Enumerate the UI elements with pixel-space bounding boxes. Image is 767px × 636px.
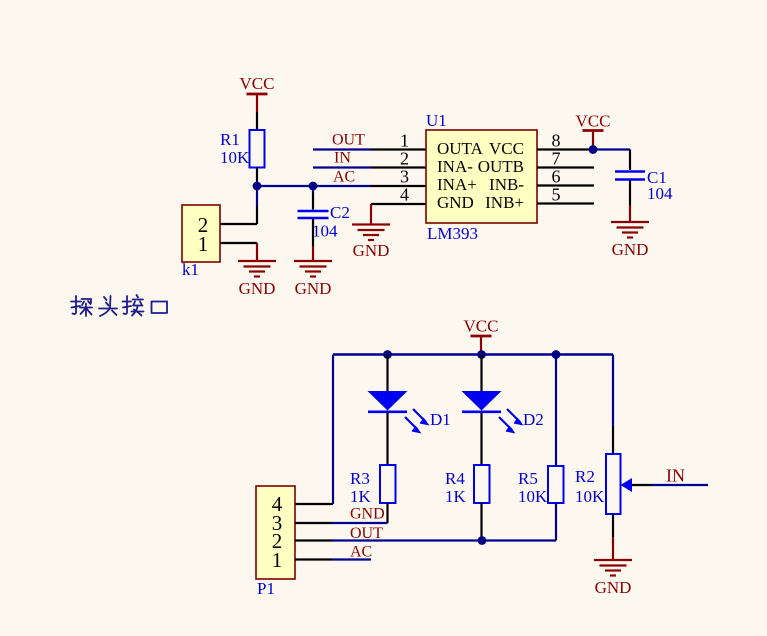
svg-text:OUT: OUT bbox=[332, 132, 365, 149]
svg-text:k1: k1 bbox=[182, 260, 199, 279]
svg-text:4: 4 bbox=[400, 185, 409, 205]
wire U1 pin7 stub bbox=[537, 166, 594, 168]
svg-text:R1: R1 bbox=[220, 130, 240, 149]
wire U1 pin5 stub bbox=[537, 202, 594, 204]
wire U1 pin4 stub bbox=[371, 203, 426, 205]
svg-text:GND: GND bbox=[350, 506, 385, 523]
svg-text:AC: AC bbox=[350, 544, 372, 561]
svg-text:10K: 10K bbox=[518, 487, 548, 506]
node junction D1/rail bbox=[383, 350, 392, 359]
wire P1 pin1 (AC stub) bbox=[295, 544, 372, 561]
svg-text:1: 1 bbox=[198, 232, 209, 256]
svg-text:7: 7 bbox=[552, 149, 561, 169]
caption 探头接口 (probe interface) hand-drawn bbox=[71, 295, 167, 316]
wire bus AC row bbox=[257, 185, 371, 187]
svg-text:5: 5 bbox=[552, 185, 561, 205]
svg-text:C2: C2 bbox=[330, 203, 350, 222]
connector P1 bbox=[256, 486, 295, 598]
ground GND (below C1) bbox=[611, 205, 649, 259]
capacitor C1 bbox=[615, 168, 673, 203]
node junction pin8/VCC bbox=[589, 145, 598, 154]
resistor R1 bbox=[220, 130, 265, 168]
svg-text:1: 1 bbox=[400, 131, 409, 151]
ground GND (U1 pin4) bbox=[352, 204, 390, 260]
svg-text:R2: R2 bbox=[575, 467, 595, 486]
svg-text:GND: GND bbox=[295, 279, 332, 298]
svg-text:GND: GND bbox=[612, 240, 649, 259]
wire P1 pin3 (GND net) bbox=[295, 506, 388, 524]
wire net OUT bbox=[313, 132, 426, 150]
wire R5 top bbox=[555, 355, 557, 467]
wire R5 bottom to OUT row bbox=[555, 503, 557, 541]
node junction R1/bus bbox=[253, 182, 262, 191]
svg-text:2: 2 bbox=[400, 149, 409, 169]
svg-text:3: 3 bbox=[400, 167, 409, 187]
探 bbox=[73, 296, 77, 314]
svg-text:104: 104 bbox=[647, 184, 673, 203]
svg-text:GND: GND bbox=[353, 241, 390, 260]
svg-text:R5: R5 bbox=[518, 469, 538, 488]
capacitor C2 bbox=[298, 203, 350, 241]
svg-text:GND: GND bbox=[595, 578, 632, 597]
connector k1 bbox=[182, 205, 220, 279]
svg-text:OUTB: OUTB bbox=[478, 157, 524, 176]
wire R3 bottom to pin3 row bbox=[386, 503, 388, 523]
resistor R3 bbox=[350, 465, 396, 506]
ground GND (below C2) bbox=[294, 246, 332, 298]
头 bbox=[104, 297, 107, 300]
power VCC (bottom rail) bbox=[464, 317, 499, 355]
wire top rail bbox=[333, 353, 613, 356]
wire P1 pin2 (OUT row) bbox=[295, 525, 556, 542]
wire k1 pin1 bbox=[220, 242, 257, 244]
svg-text:OUTA: OUTA bbox=[437, 139, 484, 158]
svg-text:R4: R4 bbox=[445, 469, 465, 488]
wire D1 anode bbox=[386, 355, 388, 392]
口 bbox=[152, 302, 168, 314]
resistor R4 bbox=[445, 465, 490, 506]
svg-text:IN: IN bbox=[334, 150, 351, 167]
LED D2 bbox=[462, 391, 544, 434]
wire U1 pin3 stub bbox=[371, 185, 426, 187]
power VCC (U1 pin8) bbox=[576, 112, 611, 150]
node junction C2/bus bbox=[309, 182, 318, 191]
resistor R5 bbox=[518, 466, 564, 506]
svg-text:D2: D2 bbox=[523, 410, 544, 429]
wire rail left drop to P1 pin4 bbox=[295, 355, 333, 505]
svg-text:VCC: VCC bbox=[464, 317, 499, 336]
op-amp U1 (LM393) bbox=[426, 111, 537, 243]
svg-text:VCC: VCC bbox=[576, 112, 611, 131]
svg-text:10K: 10K bbox=[220, 148, 250, 167]
wire C2 bottom pin bbox=[312, 219, 314, 246]
wire U1 pin8 stub bbox=[537, 148, 593, 150]
ground GND (below k1 pin1) bbox=[238, 243, 276, 298]
potentiometer R2 bbox=[575, 454, 632, 514]
svg-text:INA-: INA- bbox=[437, 157, 473, 176]
svg-text:LM393: LM393 bbox=[427, 224, 478, 243]
power VCC (above R1) bbox=[240, 74, 275, 112]
wire D2 cathode to R4 bbox=[480, 413, 482, 465]
LED D1 bbox=[368, 391, 451, 434]
node junction R4/OUT row bbox=[478, 536, 487, 545]
ground GND (below R2) bbox=[594, 537, 632, 597]
wire R2 bottom pin bbox=[612, 514, 614, 537]
svg-text:P1: P1 bbox=[257, 579, 275, 598]
svg-text:IN: IN bbox=[666, 466, 685, 486]
wire D2 anode bbox=[480, 355, 482, 392]
svg-text:6: 6 bbox=[552, 167, 561, 187]
wire D1 cathode to R3 bbox=[386, 413, 388, 465]
svg-text:INB-: INB- bbox=[489, 175, 524, 194]
svg-text:OUT: OUT bbox=[350, 525, 383, 542]
svg-text:AC: AC bbox=[333, 169, 355, 186]
wire C1 bottom pin bbox=[629, 181, 631, 206]
svg-text:1: 1 bbox=[272, 548, 283, 572]
wire VCC to C1 bbox=[593, 150, 630, 171]
svg-text:U1: U1 bbox=[426, 111, 447, 130]
svg-text:R3: R3 bbox=[350, 469, 370, 488]
wire R2 wiper to IN bbox=[632, 466, 708, 486]
svg-text:GND: GND bbox=[437, 193, 474, 212]
wire net IN bbox=[313, 150, 426, 168]
wire U1 pin6 stub bbox=[537, 184, 594, 186]
svg-text:1K: 1K bbox=[350, 487, 372, 506]
svg-text:10K: 10K bbox=[575, 487, 605, 506]
node junction VCC-D2/rail bbox=[477, 350, 486, 359]
svg-text:INB+: INB+ bbox=[485, 193, 524, 212]
接 bbox=[124, 296, 128, 314]
wire R1 top pin bbox=[256, 112, 258, 130]
node junction R5/rail bbox=[552, 350, 561, 359]
svg-text:D1: D1 bbox=[430, 410, 451, 429]
wire R1 bottom pin bbox=[256, 168, 258, 181]
wire C2 top pin bbox=[312, 186, 314, 210]
svg-text:1K: 1K bbox=[445, 487, 467, 506]
svg-text:INA+: INA+ bbox=[437, 175, 477, 194]
svg-text:104: 104 bbox=[312, 222, 338, 241]
svg-text:VCC: VCC bbox=[240, 74, 275, 93]
wire k1 pin2 vertical bbox=[220, 186, 257, 224]
wire R4 bottom to OUT row bbox=[480, 503, 482, 541]
wire vertical to bus bbox=[256, 180, 258, 186]
wire rail right drop to R2 bbox=[612, 355, 614, 455]
svg-text:VCC: VCC bbox=[489, 139, 524, 158]
svg-text:GND: GND bbox=[239, 279, 276, 298]
svg-text:8: 8 bbox=[552, 131, 561, 151]
